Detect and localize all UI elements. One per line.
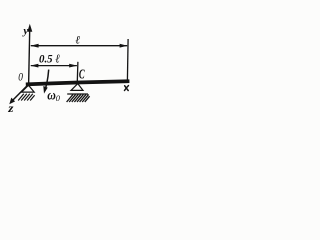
ground hatching at C bbox=[67, 94, 90, 102]
svg-text:0: 0 bbox=[18, 72, 23, 84]
svg-text:ω: ω bbox=[47, 89, 56, 104]
svg-text:y: y bbox=[21, 25, 28, 37]
dimension line 0.5l bbox=[30, 64, 77, 68]
extension tick at C bbox=[76, 62, 79, 81]
pin support at O: pivot circle bbox=[27, 82, 31, 86]
hatching at O bbox=[18, 94, 34, 101]
dimension line l bbox=[30, 44, 127, 48]
beam (x-axis bar) bbox=[26, 81, 130, 84]
svg-text:C: C bbox=[79, 68, 85, 83]
roller support at C: triangle bbox=[71, 84, 83, 91]
label omega0 bbox=[47, 89, 61, 104]
y-axis bbox=[27, 24, 32, 85]
svg-text:z: z bbox=[7, 101, 14, 115]
angular velocity arrow omega0 bbox=[43, 70, 48, 94]
z-axis bbox=[9, 86, 27, 105]
background paper bbox=[0, 0, 150, 150]
pin support at O: triangle bbox=[22, 85, 35, 92]
svg-text:0.5 ℓ: 0.5 ℓ bbox=[39, 51, 60, 65]
extension line at right end bbox=[126, 39, 129, 81]
label x (handwritten strokes) bbox=[125, 86, 129, 91]
ground line at C bbox=[67, 93, 88, 95]
svg-text:ℓ: ℓ bbox=[75, 35, 80, 47]
